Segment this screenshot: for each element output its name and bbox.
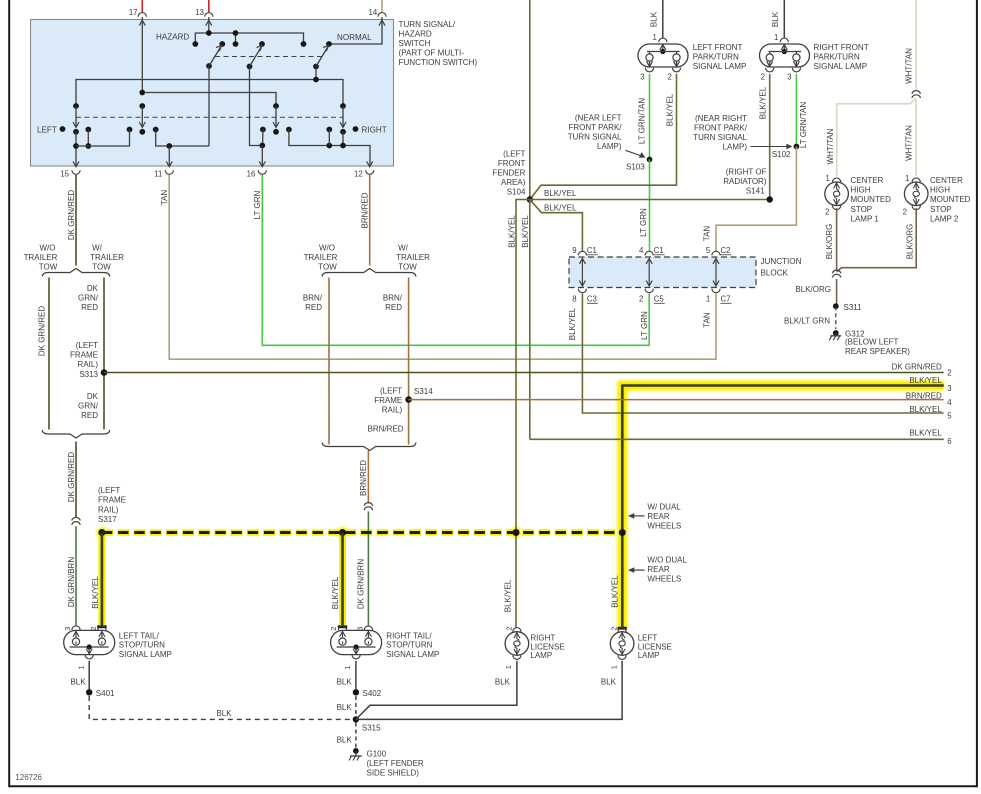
svg-text:3: 3 <box>63 627 72 631</box>
ground G312 (below left rear speaker) <box>833 330 839 336</box>
svg-text:BRN/RED: BRN/RED <box>359 460 368 496</box>
svg-text:HIGH: HIGH <box>851 186 871 195</box>
svg-text:3: 3 <box>947 384 951 393</box>
svg-text:SIGNAL LAMP: SIGNAL LAMP <box>693 62 747 71</box>
wire DK GRN/RED w/o trailer tow branch <box>48 278 50 430</box>
svg-text:TRAILER: TRAILER <box>24 253 58 262</box>
wire BLK/YEL S104 down to circuit 6 <box>529 200 531 440</box>
svg-text:TRAILER: TRAILER <box>396 253 430 262</box>
wire BLK/LT GRN S311 to ground <box>835 306 837 329</box>
left contact group wiring <box>85 127 91 133</box>
svg-text:RED: RED <box>81 303 98 312</box>
svg-text:FRONT PARK/: FRONT PARK/ <box>568 123 622 132</box>
svg-text:S102: S102 <box>772 150 791 159</box>
pale yellow band - S104 to circuit 6 BLK/YEL <box>526 202 533 437</box>
svg-text:2: 2 <box>329 627 338 631</box>
svg-text:126726: 126726 <box>15 773 42 782</box>
svg-text:LAMP: LAMP <box>530 651 552 660</box>
svg-text:REAR: REAR <box>647 512 669 521</box>
wire BLK/YEL dashed link S317 to left license circuit <box>102 531 622 534</box>
svg-text:BLK/YEL: BLK/YEL <box>909 405 942 414</box>
wire BLK/YEL S104 down to right license lamp <box>516 200 530 628</box>
svg-text:(BELOW LEFT: (BELOW LEFT <box>845 338 898 347</box>
svg-text:1: 1 <box>343 665 352 669</box>
splice S311 <box>833 303 839 309</box>
svg-text:LT GRN: LT GRN <box>253 190 262 219</box>
svg-text:BLK: BLK <box>70 678 86 687</box>
svg-text:W/ DUAL: W/ DUAL <box>647 502 681 511</box>
svg-text:C7: C7 <box>721 295 731 304</box>
svg-text:3: 3 <box>356 627 365 631</box>
wire BLK/YEL junction block C3 to circuit 5 <box>582 294 943 413</box>
svg-text:1: 1 <box>774 33 778 42</box>
svg-text:TURN SIGNAL: TURN SIGNAL <box>568 132 622 141</box>
svg-text:C5: C5 <box>654 295 665 304</box>
svg-text:S314: S314 <box>414 387 433 396</box>
svg-text:FENDER: FENDER <box>493 169 526 178</box>
svg-text:BLK/YEL: BLK/YEL <box>507 215 516 248</box>
hazard mechanical link <box>215 56 322 58</box>
svg-text:BRN/RED: BRN/RED <box>367 425 403 434</box>
node LEFT <box>60 126 66 132</box>
svg-text:3: 3 <box>787 73 791 82</box>
svg-text:LEFT: LEFT <box>37 126 57 135</box>
svg-text:RED: RED <box>81 411 98 420</box>
svg-text:W/: W/ <box>398 244 409 253</box>
svg-text:WHT/TAN: WHT/TAN <box>826 128 835 164</box>
svg-text:BLK/ORG: BLK/ORG <box>795 285 831 294</box>
wire BLK/YEL from top of page to S104 <box>529 0 531 200</box>
svg-text:BLK/YEL: BLK/YEL <box>568 307 577 340</box>
svg-text:BLK/YEL: BLK/YEL <box>544 204 577 213</box>
wire BLK left license lamp pin 1 to S315 <box>356 661 622 720</box>
wire BRN/RED w/o trailer tow branch <box>328 278 330 445</box>
svg-text:RIGHT TAIL/: RIGHT TAIL/ <box>386 631 432 640</box>
svg-text:BLK: BLK <box>649 11 658 27</box>
svg-text:TOW: TOW <box>92 263 111 272</box>
svg-text:PARK/TURN: PARK/TURN <box>814 53 860 62</box>
pin 11 contact group wiring <box>153 127 159 133</box>
svg-text:6: 6 <box>947 437 951 446</box>
svg-text:TURN SIGNAL: TURN SIGNAL <box>693 133 747 142</box>
svg-text:2: 2 <box>505 626 514 630</box>
pin 15 <box>73 161 79 166</box>
wire BRN/RED circuit 4 (from S314) <box>409 399 944 401</box>
svg-text:14: 14 <box>369 8 378 17</box>
inline connector on left tail circuit <box>72 517 81 520</box>
turn signal mechanical link (dashed) <box>76 116 343 118</box>
junction block pin 4 C1 / 2 C5 <box>645 251 653 255</box>
turn signal bus B <box>142 93 276 107</box>
svg-text:4: 4 <box>639 246 644 255</box>
svg-text:DK GRN/BRN: DK GRN/BRN <box>357 559 366 609</box>
left switch arm (pin 15 column) <box>73 103 79 109</box>
svg-text:TAN: TAN <box>703 226 712 242</box>
wire BLK/YEL S317 to left tail lamp pin 2 <box>101 533 104 627</box>
lamp: center high mounted stop lamp 1 <box>833 178 841 182</box>
svg-text:GRN/: GRN/ <box>78 402 99 411</box>
svg-text:FRONT PARK/: FRONT PARK/ <box>694 124 748 133</box>
svg-text:12: 12 <box>354 169 363 178</box>
svg-text:(RIGHT OF: (RIGHT OF <box>726 168 767 177</box>
svg-text:SIGNAL LAMP: SIGNAL LAMP <box>119 650 172 659</box>
wire WHT/TAN branch to center stop lamp 1 <box>837 98 916 176</box>
svg-text:LT GRN/TAN: LT GRN/TAN <box>799 102 808 148</box>
svg-text:HIGH: HIGH <box>930 186 950 195</box>
junction block pin 9 C1 / 8 C3 <box>578 251 586 255</box>
svg-text:S315: S315 <box>362 724 381 733</box>
svg-text:2: 2 <box>825 208 829 217</box>
svg-text:LAMP 2: LAMP 2 <box>930 214 959 223</box>
svg-text:W/O: W/O <box>40 244 56 253</box>
svg-text:BLK/ORG: BLK/ORG <box>825 224 834 260</box>
node at right license lamp crossing <box>513 529 520 536</box>
svg-text:TOW: TOW <box>398 263 417 272</box>
svg-text:BLK/LT GRN: BLK/LT GRN <box>784 317 830 326</box>
svg-text:LEFT TAIL/: LEFT TAIL/ <box>119 631 160 640</box>
wire BRN/RED w/ trailer tow branch <box>408 278 410 445</box>
svg-text:SIDE SHIELD): SIDE SHIELD) <box>367 769 420 778</box>
wire DK GRN/RED w/ trailer tow branch <box>103 278 105 430</box>
node RIGHT <box>353 126 359 132</box>
wire BLK dashed S315 to G100 <box>355 723 357 748</box>
svg-text:BLK: BLK <box>337 678 353 687</box>
svg-text:REAR SPEAKER): REAR SPEAKER) <box>845 347 910 356</box>
svg-text:FUNCTION SWITCH): FUNCTION SWITCH) <box>399 58 478 67</box>
svg-text:BLK/YEL: BLK/YEL <box>909 376 942 385</box>
yellow highlight band - S317 dashed link <box>102 528 622 538</box>
svg-text:TAN: TAN <box>703 312 712 328</box>
wire BLK/YEL circuit 6 <box>530 438 944 440</box>
yellow highlight band - left tail lamp BLK/YEL <box>97 530 107 627</box>
svg-text:DK GRN/RED: DK GRN/RED <box>892 362 942 371</box>
svg-text:8: 8 <box>572 295 576 304</box>
brace merge (right trailer tow) <box>322 443 416 451</box>
svg-text:RED: RED <box>305 303 322 312</box>
svg-text:(NEAR RIGHT: (NEAR RIGHT <box>695 114 747 123</box>
svg-text:RIGHT FRONT: RIGHT FRONT <box>814 43 869 52</box>
svg-text:JUNCTION: JUNCTION <box>761 257 802 266</box>
inline connector on BLK/ORG <box>832 270 841 273</box>
svg-text:RAIL): RAIL) <box>78 360 99 369</box>
wire BLK/YEL to right tail lamp pin 2 <box>341 533 344 627</box>
wire BRN/RED to connector <box>367 451 369 504</box>
node at left license lamp branch <box>619 529 626 536</box>
svg-text:S141: S141 <box>746 186 765 195</box>
svg-text:BLK/YEL: BLK/YEL <box>521 215 530 248</box>
w/o dual rear wheels callout <box>628 567 634 573</box>
splice S401 <box>86 689 92 695</box>
svg-text:2: 2 <box>89 627 98 631</box>
svg-text:BLK/YEL: BLK/YEL <box>331 576 340 609</box>
svg-text:BLK/YEL: BLK/YEL <box>909 428 942 437</box>
wire BRN/RED from pin 12 <box>369 175 371 266</box>
svg-text:BLK/YEL: BLK/YEL <box>503 579 512 612</box>
svg-text:BLOCK: BLOCK <box>761 269 789 278</box>
svg-text:SIGNAL LAMP: SIGNAL LAMP <box>386 650 439 659</box>
svg-text:(PART OF MULTI-: (PART OF MULTI- <box>399 49 465 58</box>
svg-text:BRN/RED: BRN/RED <box>361 192 370 228</box>
svg-text:(LEFT: (LEFT <box>76 341 98 350</box>
yellow highlight band - right tail lamp BLK/YEL <box>338 530 348 627</box>
svg-text:RAIL): RAIL) <box>382 406 403 415</box>
svg-text:STOP/TURN: STOP/TURN <box>386 641 432 650</box>
svg-text:LAMP 1: LAMP 1 <box>851 214 880 223</box>
fixed contact row (hazard/normal) <box>192 41 198 47</box>
svg-text:PARK/TURN: PARK/TURN <box>693 53 739 62</box>
svg-text:RAIL): RAIL) <box>98 505 119 514</box>
wire LT GRN/TAN from left front lamp pin 3 <box>649 74 651 160</box>
svg-text:BLK/YEL: BLK/YEL <box>611 575 620 608</box>
svg-text:WHT/TAN: WHT/TAN <box>905 48 914 84</box>
svg-text:BLK: BLK <box>216 709 232 718</box>
svg-text:(LEFT FENDER: (LEFT FENDER <box>367 759 424 768</box>
svg-text:DK GRN/RED: DK GRN/RED <box>67 190 76 240</box>
brace split (right trailer tow) <box>322 269 416 277</box>
lamp: right license lamp <box>513 628 521 632</box>
svg-text:15: 15 <box>60 169 69 178</box>
turn signal bus A <box>76 80 343 107</box>
wire BLK dashed S402 to S315 <box>355 696 357 716</box>
wire BLK/YEL from left front lamp pin 2 to S104 <box>530 74 677 200</box>
pin 11 <box>166 161 172 166</box>
svg-text:C3: C3 <box>587 295 597 304</box>
svg-text:LAMP: LAMP <box>638 651 660 660</box>
svg-text:S103: S103 <box>626 162 645 171</box>
svg-text:2: 2 <box>639 295 643 304</box>
svg-text:LT GRN: LT GRN <box>639 208 648 237</box>
svg-text:BLK/ORG: BLK/ORG <box>905 224 914 260</box>
svg-text:C2: C2 <box>721 246 731 255</box>
black cap at right tail yellow wire end <box>338 625 347 628</box>
svg-text:3: 3 <box>640 73 644 82</box>
splice S315 <box>353 716 359 722</box>
svg-text:RED: RED <box>385 303 402 312</box>
pin 12 <box>367 161 373 166</box>
svg-text:SIGNAL LAMP: SIGNAL LAMP <box>814 62 868 71</box>
svg-text:1: 1 <box>504 665 513 669</box>
svg-text:S104: S104 <box>507 188 526 197</box>
svg-text:BLK/YEL: BLK/YEL <box>544 189 577 198</box>
svg-text:1: 1 <box>76 665 85 669</box>
svg-text:1: 1 <box>652 33 656 42</box>
svg-text:STOP/TURN: STOP/TURN <box>119 641 165 650</box>
svg-text:S313: S313 <box>79 370 98 379</box>
lamp: right tail/stop/turn signal lamp <box>331 630 382 654</box>
svg-text:2: 2 <box>610 626 619 630</box>
svg-text:LAMP): LAMP) <box>597 142 622 151</box>
brace merge (left trailer tow) <box>42 430 110 438</box>
svg-text:2: 2 <box>947 369 951 378</box>
wire BLK/ORG to S311 <box>836 279 838 306</box>
svg-text:FRAME: FRAME <box>98 496 126 505</box>
hazard switch arm 3 <box>313 64 319 70</box>
lamp: left tail/stop/turn signal lamp <box>64 630 115 654</box>
svg-text:STOP: STOP <box>930 205 952 214</box>
wire DK GRN/RED circuit 2 (from S313) <box>104 372 944 374</box>
wire DK GRN/BRN to left tail lamp <box>75 526 77 625</box>
svg-text:BRN/RED: BRN/RED <box>906 391 942 400</box>
svg-text:BLK: BLK <box>771 11 780 27</box>
wire TAN from pin 11 to junction block C7 <box>169 175 716 359</box>
svg-text:LT GRN/TAN: LT GRN/TAN <box>637 98 646 144</box>
svg-text:C1: C1 <box>587 246 597 255</box>
svg-text:BLK/YEL: BLK/YEL <box>91 576 100 609</box>
svg-text:TOW: TOW <box>318 263 337 272</box>
svg-text:11: 11 <box>154 169 162 178</box>
svg-text:5: 5 <box>947 411 952 420</box>
wire WHT/TAN from top of page <box>915 0 917 91</box>
wire BLK right tail lamp pin 1 to S402 <box>355 661 357 693</box>
right switch arm (pin 12 column) <box>340 103 346 109</box>
svg-text:RIGHT: RIGHT <box>362 126 387 135</box>
wire DK GRN/BRN to right tail lamp <box>367 512 369 626</box>
wire BLK/YEL S104 to S141 (right of radiator) <box>530 199 770 201</box>
svg-text:DK: DK <box>87 284 99 293</box>
svg-text:HAZARD: HAZARD <box>399 30 432 39</box>
svg-text:DK GRN/BRN: DK GRN/BRN <box>67 557 76 607</box>
node at right tail lamp branch <box>339 529 346 536</box>
svg-text:1: 1 <box>706 295 710 304</box>
svg-text:W/O: W/O <box>319 244 335 253</box>
svg-text:W/: W/ <box>92 244 103 253</box>
svg-text:(LEFT: (LEFT <box>503 150 525 159</box>
svg-text:2: 2 <box>761 73 765 82</box>
svg-text:S401: S401 <box>96 689 115 698</box>
svg-text:TRAILER: TRAILER <box>90 253 124 262</box>
svg-text:1: 1 <box>609 665 618 669</box>
svg-text:G100: G100 <box>367 750 387 759</box>
splice S402 <box>353 689 359 695</box>
svg-text:LT GRN: LT GRN <box>640 311 649 340</box>
svg-text:STOP: STOP <box>851 205 873 214</box>
wire LT GRN from pin 16 to junction block C5 <box>262 175 649 345</box>
svg-text:RADIATOR): RADIATOR) <box>723 177 767 186</box>
svg-text:TRAILER: TRAILER <box>304 253 338 262</box>
svg-text:LEFT FRONT: LEFT FRONT <box>693 43 743 52</box>
wire BLK/ORG from stop lamp 2 <box>837 208 917 272</box>
svg-text:1: 1 <box>905 174 909 183</box>
svg-text:CENTER: CENTER <box>930 176 963 185</box>
svg-text:BLK: BLK <box>337 736 353 745</box>
svg-text:DK GRN/RED: DK GRN/RED <box>38 306 47 356</box>
hazard contact bus <box>195 33 303 44</box>
wire TAN from S102 to junction block C2 <box>716 147 796 251</box>
wire LT GRN from S103 to junction block C1 <box>649 160 651 251</box>
inline connector on WHT/TAN <box>912 91 921 94</box>
svg-text:(NEAR LEFT: (NEAR LEFT <box>575 113 622 122</box>
wire BLK left tail lamp pin 1 to S401 <box>88 661 90 693</box>
svg-text:CENTER: CENTER <box>851 176 884 185</box>
svg-text:5: 5 <box>706 246 711 255</box>
svg-text:DK GRN/RED: DK GRN/RED <box>67 452 76 502</box>
svg-text:2: 2 <box>903 208 907 217</box>
svg-text:SWITCH: SWITCH <box>399 39 431 48</box>
svg-text:(LEFT: (LEFT <box>98 486 120 495</box>
svg-text:S311: S311 <box>844 303 863 312</box>
svg-text:LAMP): LAMP) <box>723 143 748 152</box>
center-left switch arm <box>139 103 145 109</box>
svg-text:AREA): AREA) <box>501 178 526 187</box>
svg-text:BLK/YEL: BLK/YEL <box>666 93 675 126</box>
svg-text:HAZARD: HAZARD <box>156 33 189 42</box>
svg-text:MOUNTED: MOUNTED <box>930 195 971 204</box>
svg-text:MOUNTED: MOUNTED <box>851 195 892 204</box>
svg-text:1: 1 <box>825 174 829 183</box>
svg-text:BLK/YEL: BLK/YEL <box>759 86 768 119</box>
inline connector on right tail circuit <box>364 503 373 506</box>
svg-text:GRN/: GRN/ <box>78 294 99 303</box>
svg-text:TAN: TAN <box>160 190 169 206</box>
svg-text:FRAME: FRAME <box>70 351 98 360</box>
svg-text:17: 17 <box>129 8 138 17</box>
svg-text:FRAME: FRAME <box>374 396 402 405</box>
yellow highlight band - BLK/YEL circuit 3 <box>622 386 943 628</box>
black cap at left tail yellow wire end <box>97 625 106 628</box>
svg-text:WHT/TAN: WHT/TAN <box>905 125 914 161</box>
lamp: center high mounted stop lamp 2 <box>912 178 920 182</box>
svg-text:2: 2 <box>667 73 671 82</box>
hazard switch arm 1 <box>206 63 212 69</box>
svg-text:FRONT: FRONT <box>498 159 526 168</box>
pin 16 contact group wiring <box>260 127 266 133</box>
svg-text:(LEFT: (LEFT <box>380 387 402 396</box>
junction block <box>569 257 756 288</box>
black cap at left license yellow wire end <box>618 627 627 630</box>
wire BLK right license lamp pin 1 to S315 <box>356 661 517 720</box>
svg-text:LEFT: LEFT <box>638 633 658 642</box>
svg-text:BRN/: BRN/ <box>383 294 403 303</box>
wire BLK dashed S401 to S315 <box>89 696 353 719</box>
junction block pin 5 C2 / 1 C7 <box>712 251 720 255</box>
pale yellow band - right license lamp BLK/YEL <box>513 202 520 628</box>
wire DK GRN/RED from pin 15 <box>75 175 77 266</box>
svg-text:NORMAL: NORMAL <box>337 33 372 42</box>
center-right switch arm <box>273 103 279 109</box>
svg-text:S317: S317 <box>98 515 117 524</box>
wire BLK/YEL circuit 3 (yellow highlighted) <box>622 386 943 628</box>
svg-text:DK: DK <box>87 392 99 401</box>
svg-text:RIGHT: RIGHT <box>530 633 555 642</box>
svg-text:S402: S402 <box>363 689 382 698</box>
svg-text:REAR: REAR <box>647 565 669 574</box>
svg-text:13: 13 <box>195 8 204 17</box>
wire BLK/ORG from stop lamp 1 <box>836 208 838 271</box>
wire BLK/YEL S104 to junction block C1 pin 9 <box>530 200 583 251</box>
pin 16 <box>259 161 265 166</box>
hazard switch arm 2 <box>247 64 253 70</box>
wire BLK/YEL from right front lamp pin 2 to S141 <box>769 74 771 200</box>
svg-text:TURN SIGNAL/: TURN SIGNAL/ <box>399 20 456 29</box>
turn signal/hazard switch (part of multi-function switch) <box>31 20 394 167</box>
svg-text:W/O DUAL: W/O DUAL <box>647 555 687 564</box>
svg-text:4: 4 <box>947 398 952 407</box>
pin 12 contact group wiring <box>286 127 292 133</box>
svg-text:9: 9 <box>572 246 576 255</box>
wire LT GRN/TAN from right front lamp pin 3 <box>795 74 797 147</box>
w/ dual rear wheels callout <box>628 513 634 519</box>
svg-text:BRN/: BRN/ <box>303 294 323 303</box>
svg-text:TOW: TOW <box>39 263 58 272</box>
brace split (left trailer tow) <box>42 269 110 277</box>
lamp: left license lamp <box>618 628 626 632</box>
ground G100 (left fender side shield) <box>353 748 359 754</box>
svg-text:16: 16 <box>247 169 256 178</box>
wire DK GRN/RED to connector <box>75 442 77 518</box>
wire WHT/TAN to center stop lamp 2 <box>915 100 917 177</box>
svg-text:C1: C1 <box>654 246 664 255</box>
svg-text:WHEELS: WHEELS <box>647 521 681 530</box>
